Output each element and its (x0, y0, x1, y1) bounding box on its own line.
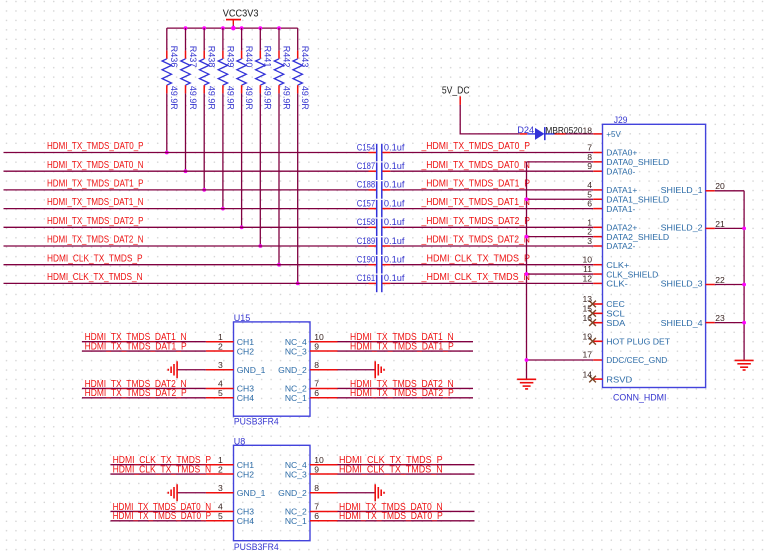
svg-text:SHIELD_2: SHIELD_2 (661, 223, 703, 233)
junction R440-net (240, 225, 244, 229)
svg-text:HOT PLUG DET: HOT PLUG DET (606, 337, 671, 347)
svg-text:8: 8 (314, 483, 319, 493)
svg-text:23: 23 (715, 313, 725, 323)
junction power-bus (231, 26, 236, 31)
svg-text:GND_2: GND_2 (278, 488, 307, 498)
wire net HDMI_TX_TMDS_DAT1_P left (4, 189, 369, 191)
resistor R443 (297, 51, 299, 59)
svg-text:C190: C190 (357, 255, 375, 265)
svg-text:+5V: +5V (606, 129, 621, 139)
junction gnd bus pin17 (525, 358, 529, 362)
wire net HDMI_TX_TMDS_DAT2_P left (4, 226, 369, 228)
pin stub U15 pin 2 (206, 350, 234, 352)
pin stub J29 pin 2 (593, 236, 602, 238)
wire bus to resistor R438 (203, 28, 205, 50)
svg-text:20: 20 (715, 181, 725, 191)
svg-text:_HDMI_CLK_TX_TMDS_P: _HDMI_CLK_TX_TMDS_P (421, 253, 531, 264)
svg-text:0.1uf: 0.1uf (384, 198, 405, 208)
wire shield vertical bus (526, 162, 528, 379)
pin stub U8 pin 4 (206, 510, 234, 512)
wire bus to resistor R443 (297, 28, 299, 50)
svg-text:HDMI_TX_TMDS_DAT1_P: HDMI_TX_TMDS_DAT1_P (350, 341, 454, 352)
wire resistor R438 to net (203, 93, 205, 189)
junction R443-net (296, 282, 300, 286)
ground right shield bus (735, 359, 754, 361)
wire net HDMI_TX_TMDS_DAT2_N left (4, 245, 369, 247)
wire bus to resistor R440 (241, 28, 243, 50)
IC U8 outline (234, 445, 311, 540)
svg-text:0.1uf: 0.1uf (384, 161, 405, 171)
svg-text:C161: C161 (357, 273, 375, 283)
svg-text:SHIELD_3: SHIELD_3 (661, 279, 703, 289)
wire net HDMI_TX_TMDS_DAT2_N right (338, 387, 474, 389)
svg-text:19: 19 (582, 332, 592, 342)
svg-text:5: 5 (218, 388, 223, 398)
pin stub J29 pin 10 (593, 264, 602, 266)
junction R439-net (221, 207, 225, 211)
junction R436-net (165, 151, 169, 155)
resistor R441 (259, 51, 261, 59)
svg-text:49.9R: 49.9R (225, 86, 235, 110)
pin stub J29 pin 5 (593, 198, 602, 200)
wire shield to J29 pin 5 (527, 198, 594, 200)
wire D24 to J29 +5V (566, 133, 594, 135)
junction R441-net (258, 244, 262, 248)
svg-text:SHIELD_1: SHIELD_1 (661, 185, 703, 195)
wire net HDMI_TX_TMDS_DAT1_P right (338, 350, 474, 352)
wire net _HDMI_CLK_TX_TMDS_P right (390, 264, 593, 266)
junction R437-net (184, 169, 188, 173)
pin stub U8 pin 2 (206, 473, 234, 475)
junction bus col2 (184, 26, 188, 30)
wire resistor R440 to net (241, 93, 243, 227)
junction bus col7 (277, 26, 281, 30)
svg-text:5V_DC: 5V_DC (442, 86, 470, 97)
capacitor C190 (369, 264, 377, 266)
junction bus col3 (202, 26, 206, 30)
ground U15 GND_2 (374, 361, 376, 378)
wire net HDMI_TX_TMDS_DAT0_N left (111, 510, 206, 512)
pin stub J29 pin 1 (593, 226, 602, 228)
svg-text:_HDMI_TX_TMDS_DAT0_N: _HDMI_TX_TMDS_DAT0_N (421, 160, 530, 171)
pin stub J29 pin 3 (593, 245, 602, 247)
svg-text:CH4: CH4 (237, 393, 254, 403)
svg-text:R441: R441 (263, 46, 273, 68)
wire bus to resistor R441 (259, 28, 261, 50)
wire net _HDMI_CLK_TX_TMDS_N right (390, 282, 593, 284)
svg-text:PUSB3FR4: PUSB3FR4 (234, 542, 279, 553)
svg-text:HDMI_CLK_TX_TMDS_P: HDMI_CLK_TX_TMDS_P (47, 253, 143, 264)
svg-text:DATA1-: DATA1- (606, 204, 635, 214)
pin stub U15 pin 6 (310, 397, 338, 399)
pin J29 14 no-connect arrow (593, 378, 603, 380)
ground U15 GND_1 (176, 361, 178, 378)
svg-text:2: 2 (218, 341, 223, 351)
pin stub J29 pin 9 (593, 170, 602, 172)
svg-text:49.9R: 49.9R (244, 86, 254, 110)
svg-text:HDMI_CLK_TX_TMDS_N: HDMI_CLK_TX_TMDS_N (339, 464, 443, 475)
svg-text:HDMI_TX_TMDS_DAT0_P: HDMI_TX_TMDS_DAT0_P (339, 511, 443, 522)
wire net _HDMI_TX_TMDS_DAT1_N right (390, 208, 593, 210)
svg-text:HDMI_CLK_TX_TMDS_N: HDMI_CLK_TX_TMDS_N (47, 272, 143, 283)
junction right bus 21 (742, 227, 746, 231)
IC U15 outline (234, 322, 311, 416)
pin J29 13 no-connect arrow (593, 303, 603, 305)
pin J29 15 no-connect arrow (593, 312, 603, 314)
svg-text:DATA0-: DATA0- (606, 166, 635, 176)
pin stub J29 pin 6 (593, 208, 602, 210)
wire net HDMI_TX_TMDS_DAT1_N right (338, 341, 474, 343)
svg-text:D24: D24 (517, 125, 534, 136)
resistor R436 (166, 51, 168, 59)
svg-text:GND_1: GND_1 (237, 488, 266, 498)
svg-text:NC_3: NC_3 (285, 469, 307, 479)
ground U8 GND_2 (374, 484, 376, 501)
pin stub U15 pin 5 (206, 397, 234, 399)
resistor R442 (278, 51, 280, 59)
wire gnd left U15 (177, 369, 206, 371)
svg-text:R442: R442 (281, 46, 291, 68)
svg-text:HDMI_TX_TMDS_DAT2_P: HDMI_TX_TMDS_DAT2_P (47, 216, 144, 227)
pin stub J29 pin 7 (593, 152, 602, 154)
pin stub J29 pin 17 (593, 359, 602, 361)
wire shield pin 21 (715, 227, 744, 229)
wire bus to resistor R437 (185, 28, 187, 50)
wire net HDMI_CLK_TX_TMDS_N left (111, 473, 206, 475)
wire net HDMI_CLK_TX_TMDS_P left (4, 264, 369, 266)
svg-text:21: 21 (715, 219, 725, 229)
svg-text:16: 16 (582, 313, 592, 323)
capacitor C157 (369, 208, 377, 210)
wire net HDMI_TX_TMDS_DAT0_P left (4, 152, 369, 154)
svg-text:49.9R: 49.9R (169, 86, 179, 110)
pin stub J29 pin 22 (706, 284, 715, 286)
wire net HDMI_CLK_TX_TMDS_P right (338, 464, 475, 466)
svg-text:11: 11 (583, 264, 592, 274)
wire net HDMI_TX_TMDS_DAT2_P left (82, 397, 206, 399)
svg-text:C188: C188 (357, 180, 375, 190)
svg-text:SDA: SDA (606, 318, 625, 328)
wire gnd right U8 (338, 492, 376, 494)
svg-text:C189: C189 (357, 236, 375, 246)
svg-text:_HDMI_TX_TMDS_DAT1_P: _HDMI_TX_TMDS_DAT1_P (421, 179, 531, 190)
wire resistor R441 to net (259, 93, 261, 246)
diode D24 (520, 133, 528, 135)
svg-text:2: 2 (587, 227, 592, 237)
svg-text:C154: C154 (357, 142, 375, 152)
svg-text:49.9R: 49.9R (263, 86, 273, 110)
wire gnd right U15 (338, 369, 376, 371)
svg-text:GND_1: GND_1 (237, 365, 266, 375)
pin stub U15 pin 3 (206, 369, 234, 371)
wire net HDMI_TX_TMDS_DAT0_N left (4, 170, 369, 172)
svg-text:18: 18 (582, 125, 592, 135)
svg-text:_HDMI_TX_TMDS_DAT2_P: _HDMI_TX_TMDS_DAT2_P (421, 216, 531, 227)
pin J29 16 no-connect arrow (593, 322, 603, 324)
svg-text:HDMI_TX_TMDS_DAT2_N: HDMI_TX_TMDS_DAT2_N (47, 235, 144, 246)
wire resistor top bus (167, 27, 298, 29)
svg-text:6: 6 (587, 199, 592, 209)
pin stub U15 pin 10 (310, 341, 338, 343)
junction bus col5 (240, 26, 244, 30)
wire net HDMI_TX_TMDS_DAT1_P left (82, 350, 206, 352)
svg-text:5: 5 (218, 511, 223, 521)
capacitor C187 (369, 170, 377, 172)
wire J29 pin 17 to gnd bus (527, 359, 594, 361)
svg-text:MBR0520: MBR0520 (545, 125, 582, 136)
capacitor C154 (369, 152, 377, 154)
svg-text:6: 6 (314, 511, 319, 521)
svg-text:_HDMI_TX_TMDS_DAT0_P: _HDMI_TX_TMDS_DAT0_P (421, 141, 531, 152)
wire resistor R436 to net (166, 93, 168, 152)
wire bus to resistor R442 (278, 28, 280, 50)
pin stub J29 pin 23 (706, 322, 715, 324)
svg-text:_HDMI_TX_TMDS_DAT1_N: _HDMI_TX_TMDS_DAT1_N (421, 197, 530, 208)
svg-text:3: 3 (218, 360, 223, 370)
wire net _HDMI_TX_TMDS_DAT0_N right (390, 170, 593, 172)
wire shield to J29 pin 11 (527, 273, 594, 275)
junction R442-net (277, 263, 281, 267)
svg-text:0.1uf: 0.1uf (384, 273, 405, 283)
pin stub J29 pin 20 (706, 190, 715, 192)
wire shield to J29 pin 8 (527, 161, 594, 163)
svg-text:HDMI_TX_TMDS_DAT0_N: HDMI_TX_TMDS_DAT0_N (47, 160, 144, 171)
pin stub J29 pin 8 (593, 161, 602, 163)
junction right bus 23 (742, 321, 746, 325)
pin stub U8 pin 7 (310, 510, 338, 512)
pin stub U8 pin 1 (206, 464, 234, 466)
pin stub U15 pin 9 (310, 350, 338, 352)
svg-text:49.9R: 49.9R (207, 86, 217, 110)
capacitor C158 (369, 226, 377, 228)
resistor R437 (185, 51, 187, 59)
svg-text:0.1uf: 0.1uf (384, 180, 405, 190)
svg-text:NC_3: NC_3 (285, 346, 307, 356)
svg-text:8: 8 (587, 152, 592, 162)
wire net HDMI_CLK_TX_TMDS_N left (4, 282, 369, 284)
junction shield bus 11 (525, 272, 529, 276)
wire shield pin 20 (715, 190, 744, 192)
svg-text:3: 3 (218, 483, 223, 493)
svg-text:C157: C157 (357, 198, 375, 208)
pin stub U15 pin 4 (206, 387, 234, 389)
svg-text:9: 9 (587, 161, 592, 171)
junction right bus 22 (742, 283, 746, 287)
wire power stub (232, 25, 234, 29)
svg-text:2: 2 (218, 464, 223, 474)
svg-text:49.9R: 49.9R (300, 86, 310, 110)
resistor R440 (241, 51, 243, 59)
wire right shield bus (743, 191, 745, 360)
pin stub U8 pin 9 (310, 473, 338, 475)
junction bus col6 (258, 26, 262, 30)
svg-text:_HDMI_TX_TMDS_DAT2_N: _HDMI_TX_TMDS_DAT2_N (421, 235, 530, 246)
svg-text:VCC3V3: VCC3V3 (223, 9, 259, 20)
resistor R438 (203, 51, 205, 59)
wire net _HDMI_TX_TMDS_DAT0_P right (390, 152, 593, 154)
svg-text:GND_2: GND_2 (278, 365, 307, 375)
wire resistor R442 to net (278, 93, 280, 264)
svg-text:HDMI_TX_TMDS_DAT2_P: HDMI_TX_TMDS_DAT2_P (85, 388, 187, 399)
resistor R439 (222, 51, 224, 59)
svg-text:8: 8 (314, 360, 319, 370)
pin stub J29 pin 4 (593, 189, 602, 191)
svg-text:HDMI_TX_TMDS_DAT2_P: HDMI_TX_TMDS_DAT2_P (350, 388, 454, 399)
wire net HDMI_TX_TMDS_DAT1_N left (82, 341, 206, 343)
junction bus col4 (221, 26, 225, 30)
pin J29 19 no-connect arrow (593, 340, 603, 342)
svg-text:R438: R438 (207, 46, 217, 68)
wire 5V_DC to D24 (460, 105, 520, 134)
svg-text:R436: R436 (169, 46, 179, 68)
wire bus to resistor R436 (166, 28, 168, 50)
pin stub J29 pin 11 (593, 273, 602, 275)
svg-text:CONN_HDMI: CONN_HDMI (613, 393, 667, 404)
svg-text:HDMI_TX_TMDS_DAT1_P: HDMI_TX_TMDS_DAT1_P (47, 179, 144, 190)
pin stub U15 pin 7 (310, 387, 338, 389)
svg-text:14: 14 (582, 369, 592, 379)
svg-text:0.1uf: 0.1uf (384, 142, 405, 152)
svg-text:NC_1: NC_1 (285, 516, 307, 526)
capacitor C161 (369, 282, 377, 284)
capacitor C188 (369, 189, 377, 191)
pin stub J29 pin 12 (593, 282, 602, 284)
svg-text:HDMI_TX_TMDS_DAT0_P: HDMI_TX_TMDS_DAT0_P (113, 511, 212, 522)
pin stub U15 pin 1 (206, 341, 234, 343)
pin stub U15 pin 8 (310, 369, 338, 371)
svg-text:0.1uf: 0.1uf (384, 236, 405, 246)
ground shield bus (517, 378, 536, 380)
svg-text:9: 9 (314, 464, 319, 474)
pin stub J29 pin 21 (706, 227, 715, 229)
svg-text:C187: C187 (357, 161, 375, 171)
svg-text:CLK-: CLK- (606, 279, 628, 289)
svg-text:DATA2-: DATA2- (606, 241, 635, 251)
pin stub U8 pin 8 (310, 492, 338, 494)
wire net HDMI_TX_TMDS_DAT2_N left (82, 387, 206, 389)
svg-text:PUSB3FR4: PUSB3FR4 (234, 417, 279, 428)
wire resistor R437 to net (185, 93, 187, 171)
wire net HDMI_TX_TMDS_DAT0_P right (338, 520, 475, 522)
wire shield to J29 pin 2 (527, 236, 594, 238)
svg-text:9: 9 (314, 341, 319, 351)
wire resistor R439 to net (222, 93, 224, 208)
junction shield bus 2 (525, 235, 529, 239)
svg-text:6: 6 (314, 388, 319, 398)
svg-text:R437: R437 (188, 46, 198, 68)
svg-text:SHIELD_4: SHIELD_4 (661, 318, 703, 328)
svg-text:17: 17 (582, 350, 592, 360)
pin stub U8 pin 5 (206, 520, 234, 522)
pin stub U8 pin 3 (206, 492, 234, 494)
junction R438-net (202, 188, 206, 192)
connector J29 outline (603, 124, 706, 387)
svg-text:J29: J29 (614, 115, 628, 125)
svg-text:R440: R440 (244, 46, 254, 68)
svg-text:_HDMI_CLK_TX_TMDS_N: _HDMI_CLK_TX_TMDS_N (421, 272, 530, 283)
wire net HDMI_TX_TMDS_DAT0_P left (111, 520, 206, 522)
pin stub U8 pin 6 (310, 520, 338, 522)
wire bus to resistor R439 (222, 28, 224, 50)
svg-text:U8: U8 (234, 436, 246, 446)
svg-text:HDMI_TX_TMDS_DAT0_P: HDMI_TX_TMDS_DAT0_P (47, 141, 144, 152)
svg-text:U15: U15 (234, 313, 251, 323)
wire net HDMI_TX_TMDS_DAT1_N left (4, 208, 369, 210)
svg-text:CH4: CH4 (237, 516, 254, 526)
wire net HDMI_CLK_TX_TMDS_P left (111, 464, 206, 466)
wire resistor R443 to net (297, 93, 299, 283)
ground U8 GND_1 (176, 484, 178, 501)
svg-text:C158: C158 (357, 217, 375, 227)
svg-text:3: 3 (587, 236, 592, 246)
svg-text:49.9R: 49.9R (188, 86, 198, 110)
svg-text:0.1uf: 0.1uf (384, 217, 405, 227)
svg-text:12: 12 (582, 273, 592, 283)
wire shield pin 23 (715, 322, 744, 324)
wire net _HDMI_TX_TMDS_DAT1_P right (390, 189, 593, 191)
pin stub J29 pin 18 (593, 133, 602, 135)
wire net HDMI_TX_TMDS_DAT0_N right (338, 510, 475, 512)
svg-text:49.9R: 49.9R (281, 86, 291, 110)
junction shield bus 5 (525, 197, 529, 201)
svg-text:HDMI_CLK_TX_TMDS_N: HDMI_CLK_TX_TMDS_N (113, 464, 212, 475)
svg-text:22: 22 (715, 275, 725, 285)
svg-text:HDMI_TX_TMDS_DAT1_P: HDMI_TX_TMDS_DAT1_P (85, 341, 187, 352)
svg-text:HDMI_TX_TMDS_DAT1_N: HDMI_TX_TMDS_DAT1_N (47, 197, 144, 208)
pin stub U8 pin 10 (310, 464, 338, 466)
svg-text:0.1uf: 0.1uf (384, 255, 405, 265)
svg-text:R439: R439 (225, 46, 235, 68)
wire shield pin 22 (715, 284, 744, 286)
wire gnd left U8 (177, 492, 206, 494)
svg-text:NC_1: NC_1 (285, 393, 307, 403)
wire net HDMI_TX_TMDS_DAT2_P right (338, 397, 474, 399)
svg-text:RSVD: RSVD (606, 374, 632, 384)
svg-text:R443: R443 (300, 46, 310, 68)
svg-text:CH2: CH2 (237, 469, 254, 479)
svg-text:CH2: CH2 (237, 346, 254, 356)
svg-text:DDC/CEC_GND: DDC/CEC_GND (606, 355, 667, 365)
svg-text:5: 5 (587, 189, 592, 199)
wire net _HDMI_TX_TMDS_DAT2_P right (390, 226, 593, 228)
wire net HDMI_CLK_TX_TMDS_N right (338, 473, 475, 475)
capacitor C189 (369, 245, 377, 247)
wire net _HDMI_TX_TMDS_DAT2_N right (390, 245, 593, 247)
